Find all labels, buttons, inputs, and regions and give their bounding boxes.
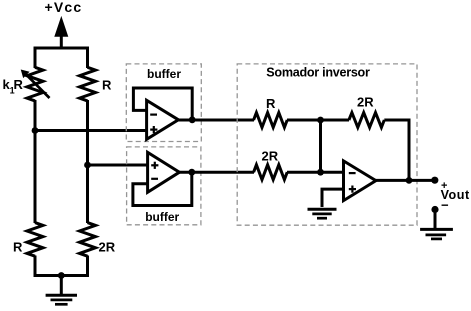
ground (Vout - terminal) xyxy=(420,210,453,239)
wire summer output to Vout terminal xyxy=(375,179,435,182)
wire left branch upper xyxy=(34,47,37,68)
wire buffer1 feedback xyxy=(133,88,192,120)
wire top junction down to bottom junction xyxy=(319,120,322,172)
wire buffer2 feedback xyxy=(133,172,192,205)
wire R to top junction xyxy=(287,119,349,122)
resistor R (top right) xyxy=(80,67,96,101)
wire right branch lower xyxy=(86,256,89,277)
wire tap A to buffer1 input xyxy=(35,129,148,132)
svg-text:Somador inversor: Somador inversor xyxy=(266,65,370,79)
wire bottom rail xyxy=(34,274,89,277)
svg-text:buffer: buffer xyxy=(147,67,181,81)
resistor R (summer input top) xyxy=(254,113,288,128)
svg-text:−: − xyxy=(441,198,449,213)
node B (right divider tap) xyxy=(84,162,91,169)
dashed box buffer 2 xyxy=(127,147,201,225)
svg-text:buffer: buffer xyxy=(145,210,179,224)
label k1R xyxy=(3,77,24,96)
wire 2R to op-amp inverting input xyxy=(287,171,345,174)
ground (bridge bottom) xyxy=(46,276,77,305)
node buffer2 output xyxy=(188,169,195,176)
node summer bottom junction xyxy=(317,169,324,176)
node Vout + terminal xyxy=(431,177,438,184)
node bottom junction xyxy=(58,272,65,279)
node buffer1 output xyxy=(189,116,196,123)
wire buffer2 output to summer 2R xyxy=(178,171,254,174)
resistor 2R (bottom right) xyxy=(80,223,96,257)
op-amp U3 (summer) xyxy=(344,161,376,201)
node A (left divider tap) xyxy=(32,127,39,134)
wire right branch middle xyxy=(86,100,89,223)
wire right branch upper xyxy=(86,47,89,68)
wire left branch middle xyxy=(34,100,37,223)
svg-text:2R: 2R xyxy=(357,95,374,110)
dashed box buffer 1 xyxy=(126,64,201,142)
svg-text:R: R xyxy=(102,78,112,93)
svg-text:R: R xyxy=(13,240,23,255)
node summer output xyxy=(406,177,413,184)
wire 2R to right corner and down to output xyxy=(384,120,409,180)
wire tap B to buffer2 input xyxy=(88,164,149,167)
svg-text:R: R xyxy=(266,96,276,111)
op-amp U1 (buffer 1) xyxy=(147,100,179,139)
wire top rail xyxy=(34,47,89,50)
wire left branch lower xyxy=(34,256,37,277)
svg-text:2R: 2R xyxy=(262,148,279,163)
svg-text:R: R xyxy=(14,77,24,92)
resistor R (bottom left) xyxy=(27,223,43,257)
node summer top junction xyxy=(317,117,324,124)
resistor 2R (summer feedback) xyxy=(349,113,384,128)
svg-text:+Vcc: +Vcc xyxy=(45,0,83,15)
svg-text:2R: 2R xyxy=(99,240,116,255)
op-amp U2 (buffer 2) xyxy=(148,152,180,192)
resistor k1R (variable) xyxy=(22,67,50,101)
wire summer noninverting input to ground xyxy=(322,189,345,207)
node Vout - terminal xyxy=(431,206,438,213)
power symbol +Vcc arrow xyxy=(55,18,68,49)
resistor 2R (summer input bottom) xyxy=(254,165,288,180)
dashed box Somador inversor xyxy=(237,64,417,225)
ground (summer + input) xyxy=(308,209,337,218)
wire buffer1 output to summer R xyxy=(177,119,254,122)
